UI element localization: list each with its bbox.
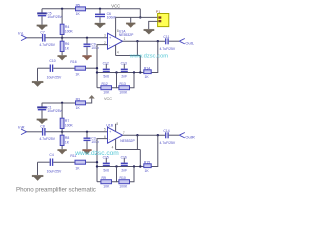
junction (output / C14 tap): [157, 134, 159, 136]
capacitor C14 4.7uF/25V (output coupling bottom): [160, 129, 176, 145]
capacitor C10 10uF/25V (series): [47, 59, 62, 79]
junction ladder mid: [115, 71, 117, 73]
resistor R3 1K (rail bottom): [76, 97, 86, 109]
wire feedback drop A: [136, 41, 138, 55]
capacitor C5 10uF/25V (rail filter): [37, 9, 62, 25]
svg-text:4.7uF/25V: 4.7uF/25V: [39, 137, 55, 141]
svg-text:1K: 1K: [145, 169, 150, 173]
svg-text:NE5532P: NE5532P: [120, 139, 135, 143]
svg-text:7: 7: [123, 131, 125, 135]
pin number 4: [117, 51, 119, 55]
resistor R10 100K (ladder loop 2 bottom): [117, 167, 135, 189]
svg-text:4.7uF/25V: 4.7uF/25V: [160, 141, 176, 145]
resistor R7 100K (bias bottom): [60, 103, 73, 132]
ground (under C6): [95, 23, 105, 28]
svg-text:R8: R8: [65, 136, 69, 140]
capacitor C8 4.7uF/25V (input coupling bottom): [39, 125, 55, 141]
wire feedback tap down to R14: [151, 41, 158, 72]
wire C14 to OutR: [169, 134, 179, 136]
pin 4 stub U1B: [115, 139, 117, 150]
capacitor C11 4.7uF/25V (output coupling): [160, 35, 176, 51]
pin number 2: [104, 41, 106, 45]
svg-text:Phono preamplifier schematic: Phono preamplifier schematic: [16, 186, 96, 193]
pin number 8 (U1B stub): [116, 122, 118, 126]
port OutR: [179, 133, 195, 140]
svg-text:100K: 100K: [119, 185, 128, 189]
port OutL: [179, 39, 195, 46]
junction ladder left: [96, 71, 98, 73]
ground (under C5): [37, 25, 47, 30]
ground (under C1): [37, 119, 47, 124]
capacitor C6 100nF (rail decoupling): [95, 9, 116, 23]
svg-text:1K: 1K: [75, 167, 80, 171]
wire RIAA ladder (bottom): [97, 166, 144, 168]
ground (under R8): [58, 149, 67, 154]
pin 4 stub U1A: [115, 45, 117, 56]
svg-text:5: 5: [104, 128, 106, 132]
port InL: [18, 30, 26, 40]
svg-text:4.7uF/25V: 4.7uF/25V: [160, 47, 176, 51]
pin 8 stub U1B: [115, 124, 117, 131]
node A junction (rail / R4): [61, 8, 63, 10]
wire ladder right riser C: [139, 56, 141, 73]
svg-text:R5: R5: [76, 3, 80, 7]
op-amp U1B NE5532P: [106, 123, 135, 143]
svg-text:R6: R6: [65, 42, 69, 46]
svg-text:100K: 100K: [119, 91, 128, 95]
svg-text:5n6: 5n6: [103, 169, 109, 173]
capacitor C13 2nF: [121, 62, 128, 79]
wire output (U1B): [123, 134, 166, 136]
svg-text:2nF: 2nF: [121, 75, 127, 79]
junction ladder mid bottom: [115, 165, 117, 167]
junction (output / feedback drop): [136, 40, 138, 42]
net VCC (bottom): [89, 95, 95, 98]
wire inverting input to ladder bottom: [97, 139, 108, 182]
svg-text:C8: C8: [40, 125, 44, 129]
svg-text:U1B: U1B: [106, 123, 113, 127]
resistor R13 100K (ladder loop 2): [117, 73, 135, 95]
svg-text:R15: R15: [144, 160, 150, 164]
junction ladder left bottom: [96, 165, 98, 167]
svg-text:10uF/25V: 10uF/25V: [47, 169, 62, 173]
svg-text:8: 8: [117, 29, 119, 33]
svg-text:R9: R9: [102, 176, 106, 180]
svg-text:3: 3: [104, 34, 106, 38]
caption: [16, 186, 96, 193]
junction (input / C9): [86, 37, 88, 39]
svg-text:C4: C4: [49, 153, 53, 157]
junction (VCC / pin8 line / P1 pin1): [139, 16, 141, 18]
junction (input / C3): [86, 131, 88, 133]
resistor R9 10K (ladder loop 1 bottom): [97, 167, 117, 189]
junction ladder riser: [139, 71, 141, 73]
svg-text:NE5532P: NE5532P: [119, 33, 134, 37]
svg-text:R7: R7: [65, 119, 69, 123]
svg-text:10uF/25V: 10uF/25V: [47, 75, 62, 79]
svg-text:R10: R10: [120, 176, 126, 180]
connector P1: [156, 10, 169, 27]
junction ladder right bottom: [133, 165, 135, 167]
ground (under R6): [58, 55, 67, 60]
wire C11 to OutL: [169, 40, 179, 42]
wire P1 pin 2 to ground: [149, 21, 158, 29]
wire rail corner down to connector feed: [139, 9, 141, 18]
capacitor C4 10uF/25V (series bottom): [47, 153, 62, 173]
watermark (top): [129, 53, 169, 59]
svg-text:100K: 100K: [65, 30, 74, 34]
wire VCC bias rail bottom: [42, 98, 92, 103]
capacitor C1 10uF/25V (rail filter bottom): [37, 103, 62, 119]
svg-text:1: 1: [124, 37, 126, 41]
wire V+ line to op-amp pin 8 and P1 pin 1: [116, 16, 158, 18]
svg-text:100nF: 100nF: [107, 16, 117, 20]
svg-text:1K: 1K: [76, 12, 81, 16]
svg-text:100p: 100p: [91, 46, 99, 50]
svg-text:4.7uF/25V: 4.7uF/25V: [39, 43, 55, 47]
pin number 3: [104, 34, 106, 38]
svg-text:100p: 100p: [91, 140, 99, 144]
wire RIAA ladder (top): [97, 72, 144, 74]
ground (P1 pin 2): [144, 29, 154, 34]
wire series RC to ground (bottom): [38, 162, 98, 175]
svg-text:R3: R3: [76, 97, 80, 101]
wire input node bottom: [27, 131, 108, 133]
svg-text:R14: R14: [144, 66, 150, 70]
svg-text:InR: InR: [18, 124, 24, 129]
svg-text:R4: R4: [65, 25, 69, 29]
pin number 6: [104, 135, 106, 139]
svg-text:R13: R13: [120, 82, 126, 86]
junction (rail / R1): [61, 102, 63, 104]
pin number 1: [124, 37, 126, 41]
pin number 4 (U1B stub): [112, 145, 114, 149]
svg-text:10K: 10K: [103, 91, 110, 95]
junction (input / R4 / R6): [61, 37, 63, 39]
ground (series RC top): [32, 81, 43, 86]
resistor R11 1K (series bottom): [70, 154, 85, 170]
resistor R5 1K (rail): [76, 3, 86, 15]
net VCC (top): [111, 4, 120, 9]
wire output (U1A): [123, 40, 166, 42]
svg-text:VCC: VCC: [111, 4, 120, 9]
resistor R15 1K (feedback series bottom): [144, 160, 151, 172]
resistor R4 100K (bias): [60, 9, 73, 38]
svg-text:C14: C14: [163, 129, 169, 133]
svg-text:www.dzsc.com: www.dzsc.com: [74, 150, 119, 157]
resistor R12 10K (ladder loop 1): [97, 73, 117, 95]
wire inverting input to ladder: [97, 45, 108, 88]
capacitor C15 5n6: [103, 156, 110, 173]
port InR: [18, 124, 26, 134]
capacitor C3 100p (input to ground bottom): [84, 132, 99, 149]
junction (input / R7 / R8): [61, 131, 63, 133]
wire VCC bias rail top: [42, 8, 140, 10]
ground (under C3): [83, 149, 92, 154]
svg-text:8: 8: [116, 122, 118, 126]
watermark (bottom): [74, 150, 119, 157]
svg-text:C13: C13: [121, 62, 127, 66]
capacitor C16 2nF: [121, 156, 128, 173]
svg-text:5n6: 5n6: [103, 75, 109, 79]
svg-text:C16: C16: [121, 156, 127, 160]
wire feedback tap down to R15: [151, 135, 158, 166]
svg-text:OutL: OutL: [185, 40, 194, 45]
resistor R16 1K (series): [70, 60, 85, 76]
junction (series RC / inverting riser bottom): [96, 161, 98, 163]
svg-text:4: 4: [112, 145, 114, 149]
svg-text:R16: R16: [70, 60, 76, 64]
ground (under C9): [83, 55, 92, 60]
wire pin4 line B: [116, 55, 141, 57]
capacitor C7 4.7uF/25V (input coupling): [39, 31, 55, 47]
wire input node (InL to +in): [27, 37, 108, 39]
svg-text:10K: 10K: [103, 185, 110, 189]
ground (series RC bottom): [32, 175, 43, 180]
resistor R8 1K (to ground bottom): [60, 132, 70, 149]
svg-text:10uF/25V: 10uF/25V: [47, 15, 62, 19]
wire ladder right riser C bottom: [139, 150, 141, 167]
svg-text:VCC: VCC: [104, 97, 112, 101]
ground (decoupling near U1A): [126, 17, 135, 27]
svg-text:R12: R12: [102, 82, 108, 86]
capacitor C12 5n6: [103, 62, 110, 79]
svg-text:2nF: 2nF: [121, 169, 127, 173]
svg-text:C12: C12: [103, 62, 109, 66]
svg-text:InL: InL: [18, 30, 24, 35]
wire pin4 line B bottom: [116, 149, 141, 151]
svg-text:10uF/25V: 10uF/25V: [47, 109, 62, 113]
wire series RC to ground (top): [38, 68, 98, 81]
svg-text:C11: C11: [163, 35, 169, 39]
junction (output / feedback drop bottom): [136, 134, 138, 136]
node B junction (rail / C6): [99, 8, 101, 10]
svg-text:1K: 1K: [75, 73, 80, 77]
svg-text:1K: 1K: [65, 47, 70, 51]
svg-text:1K: 1K: [145, 75, 150, 79]
junction ladder right: [133, 71, 135, 73]
junction (series RC / inverting riser): [96, 67, 98, 69]
pin 8 stub U1A: [115, 17, 117, 37]
svg-text:C10: C10: [49, 59, 55, 63]
svg-text:www.dzsc.com: www.dzsc.com: [129, 53, 169, 59]
svg-text:C7: C7: [40, 31, 44, 35]
pin number 8: [117, 29, 119, 33]
svg-text:1K: 1K: [65, 141, 70, 145]
svg-text:4: 4: [117, 51, 119, 55]
resistor R6 1K (to ground): [60, 38, 70, 55]
resistor R14 1K (feedback series): [144, 66, 151, 78]
capacitor C9 100p (input to ground): [84, 38, 99, 55]
junction (output / C11 tap): [157, 40, 159, 42]
pin number 7: [123, 131, 125, 135]
svg-text:1K: 1K: [76, 106, 81, 110]
op-amp U1A NE5532P: [108, 29, 135, 49]
pin number 5: [104, 128, 106, 132]
svg-text:100K: 100K: [65, 124, 74, 128]
wire feedback drop A bottom: [136, 135, 138, 149]
svg-text:OutR: OutR: [185, 134, 194, 139]
junction ladder riser bottom: [139, 165, 141, 167]
